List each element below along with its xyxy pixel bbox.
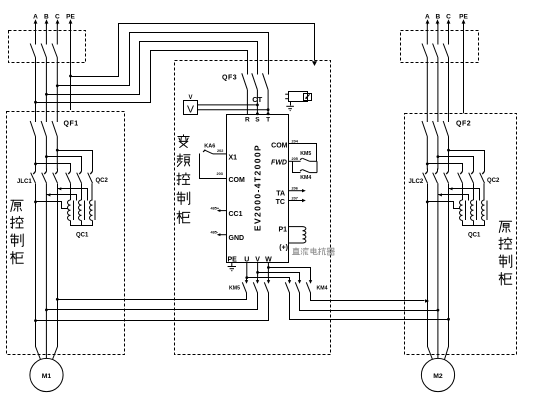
contactor KM5 pole 2 — [257, 278, 259, 281]
node A tap to QC2 (right) — [426, 163, 429, 166]
wire B isolator->QF2 — [437, 58, 439, 123]
wire C->QC2 pole3 (right) — [449, 151, 485, 169]
breaker QF2 blade B — [433, 121, 438, 137]
wire S QF3->inverter — [256, 90, 258, 115]
phase B supply arrow (right) — [437, 23, 439, 25]
isolator blade phase B (right) — [433, 44, 438, 58]
wire C lower tap -> coil area — [58, 189, 88, 201]
wire B QF1->JLC1 — [45, 137, 47, 170]
svg-text:X1: X1 — [229, 155, 238, 162]
cabinet name text 原控制柜 (right) — [499, 221, 511, 232]
wire C lower tap -> coil area (right) — [449, 189, 480, 201]
QC1 core bar 3 (left cab) — [94, 201, 96, 221]
wire FWD parallel branch — [293, 162, 301, 173]
VFD cabinet box (dashed) — [175, 61, 331, 355]
inverter U1 EV2000 box — [227, 115, 289, 263]
svg-text:QF1: QF1 — [64, 121, 79, 128]
wire phase C upper (left) — [56, 24, 58, 45]
wire B QF2->JLC2 — [437, 137, 439, 170]
node T entry — [267, 112, 270, 115]
node B lower tap arrow — [47, 193, 50, 196]
wire B lower tap -> coil area — [47, 195, 77, 201]
original control cabinet box (right, dashed) — [405, 114, 517, 355]
svg-text:T: T — [266, 117, 270, 124]
wire QC2 pole2 -> coil2 (right) — [473, 183, 475, 200]
wire C feeder bus — [58, 33, 269, 86]
wire C->QC2 pole3 — [58, 151, 93, 169]
svg-text:COM: COM — [271, 143, 288, 150]
svg-text:205: 205 — [292, 157, 298, 161]
wire C QF2->JLC2 — [448, 137, 450, 170]
breaker QF3 blade S — [252, 73, 258, 90]
QC1 coil 3 (right cab) — [482, 200, 485, 221]
wire GND stub — [219, 234, 227, 236]
wire U down — [246, 262, 248, 278]
svg-text:KA6: KA6 — [204, 144, 215, 150]
svg-text:KM5: KM5 — [229, 285, 240, 291]
wire phase A upper (left) — [35, 24, 37, 45]
wire B->QC2 pole2 (right) — [438, 157, 474, 169]
svg-text:KM5: KM5 — [300, 151, 311, 157]
node B tap to QC2 — [45, 155, 48, 158]
svg-text:PE: PE — [228, 256, 238, 263]
breaker QF3 blade T — [263, 73, 269, 90]
contactor QC2 pole 3 (left cab) — [92, 169, 94, 172]
svg-text:PE: PE — [66, 13, 75, 20]
isolator blade phase C (right) — [443, 44, 448, 58]
wire B->QC2 pole2 — [47, 157, 82, 169]
node C lower tap arrow (right) — [449, 187, 452, 190]
PE supply arrow (left) — [70, 23, 72, 25]
svg-text:PE: PE — [459, 13, 468, 20]
wire T QF3->inverter — [267, 90, 269, 115]
breaker QF1 blade C — [52, 121, 57, 137]
motor M1 circle — [30, 358, 63, 391]
DC reactor L1 coil — [303, 227, 306, 243]
wire B JLC1->M1 — [45, 183, 47, 358]
contactor QC2 pole 2 (right cab) — [473, 169, 475, 172]
isolator box QS2 (dashed, right) — [401, 31, 479, 63]
wire C isolator->QF1 — [56, 58, 58, 123]
wire W down — [267, 262, 269, 278]
surge arrester F1 body — [289, 92, 308, 102]
wire R QF3->inverter — [246, 90, 248, 115]
node KM5-M1 B junction — [45, 309, 48, 312]
wire P1->reactor — [289, 226, 303, 228]
svg-text:KM4: KM4 — [300, 175, 311, 181]
wire KM5 pole2 -> M1 — [47, 293, 258, 310]
motor M2 circle — [421, 358, 454, 391]
breaker QF2 blade C — [443, 121, 448, 137]
PE supply arrow (right) — [463, 23, 465, 25]
svg-text:485+: 485+ — [211, 207, 220, 211]
node A tap to QC2 — [34, 163, 37, 166]
isolator blade phase A (right) — [422, 44, 427, 58]
wire C JLC1->M1 — [53, 184, 58, 360]
wire B feeder bus — [47, 42, 258, 95]
contactor KM5 pole 1 — [246, 278, 248, 281]
wire voltmeter->T — [198, 109, 269, 111]
wire A lower tap -> coil1 side (right) — [428, 202, 460, 209]
wire KM4 pole2 -> M2 — [300, 293, 438, 311]
breaker QF2 blade A — [422, 121, 427, 137]
cabinet name text 原控制柜 (left) — [11, 200, 23, 211]
surge arrester earth lead — [290, 102, 292, 106]
wire QC2 pole3 -> coil3 (right) — [483, 183, 485, 200]
wire B isolator->QF1 — [45, 58, 47, 123]
wire A JLC1->M1 — [36, 184, 41, 360]
relay contact KA6 — [205, 150, 213, 154]
breaker QF1 blade A — [30, 121, 35, 137]
wire A JLC2->M2 — [428, 184, 433, 360]
wire V->KM4 pole2 — [258, 273, 300, 279]
phase B supply arrow (left) — [46, 23, 48, 25]
svg-text:COM: COM — [229, 177, 246, 184]
wire C QF1->JLC1 — [56, 137, 58, 170]
node voltmeter-S junction — [256, 104, 259, 107]
svg-text:QC1: QC1 — [76, 233, 89, 239]
wire A isolator->QF1 — [35, 58, 37, 123]
QC1 star join (right cab) — [463, 221, 485, 226]
node KM5-M1 C junction — [56, 298, 59, 301]
wire B JLC2->M2 — [437, 183, 439, 358]
wire A lower tap -> coil1 side — [36, 202, 68, 209]
svg-text:QF2: QF2 — [456, 121, 471, 128]
node A lower tap (right) — [426, 201, 429, 204]
wire B lower tap -> coil area (right) — [438, 195, 469, 201]
wire phase A upper (right) — [426, 24, 428, 45]
QC1 coil 2 (right cab) — [471, 200, 474, 221]
wire V down — [257, 262, 259, 278]
contactor KM4 pole 2 — [299, 278, 301, 281]
wire TA out — [289, 190, 303, 192]
wire KA6->COM — [200, 154, 227, 179]
surge arrester input ticks — [285, 93, 288, 95]
wire KM4 pole1 -> M2 — [290, 293, 449, 320]
svg-text:A: A — [33, 13, 38, 20]
wire FWD stub — [289, 160, 301, 162]
relay contact KM4 (interlock) — [300, 170, 302, 172]
wire phase B upper (left) — [45, 24, 47, 45]
isolator blade phase B (left) — [41, 44, 46, 58]
original control cabinet box (left, dashed) — [7, 112, 125, 355]
phase A supply arrow (left) — [35, 23, 37, 25]
svg-text:M2: M2 — [433, 373, 443, 380]
cabinet name text 变频控制柜 — [178, 135, 189, 148]
svg-text:JLC1: JLC1 — [17, 179, 32, 185]
svg-text:V: V — [188, 95, 192, 101]
QC1 coil 3 (left cab) — [90, 200, 93, 221]
isolator blade phase A (left) — [30, 44, 35, 58]
svg-text:QC2: QC2 — [96, 178, 109, 184]
svg-text:QF3: QF3 — [222, 75, 237, 82]
QC1 core bar 2 (left cab) — [84, 201, 86, 221]
wire KM5 pole3 -> M1 — [36, 293, 269, 321]
QC1 core bar 1 (right cab) — [465, 201, 467, 221]
PE feeder arrow into cabinet — [312, 61, 317, 66]
surge arrester F1 module — [304, 94, 312, 101]
svg-text:P1: P1 — [278, 227, 287, 234]
svg-text:KM4: KM4 — [317, 285, 328, 291]
wire CC1 stub — [219, 210, 227, 212]
wire voltmeter->S — [198, 104, 258, 106]
wire QC2 pole1 -> coil1 — [70, 183, 72, 200]
wire PE stub below junction — [70, 76, 72, 110]
contactor JLC2 pole 1 — [427, 169, 429, 172]
breaker QF1 blade B — [41, 121, 46, 137]
svg-text:203: 203 — [217, 172, 223, 176]
node B tap — [45, 93, 48, 96]
voltmeter PV box — [184, 101, 198, 115]
wire PE feeder bus — [71, 24, 315, 77]
node A lower tap — [34, 201, 37, 204]
wire PE vertical (left) — [70, 24, 72, 76]
wire W->KM4 pole3 — [269, 268, 311, 279]
svg-text:JLC2: JLC2 — [409, 179, 424, 185]
wire QC2 pole2 -> coil2 — [81, 183, 83, 200]
svg-text:A: A — [425, 13, 430, 20]
QC1 core bar 1 (left cab) — [73, 201, 75, 221]
node voltmeter-T junction — [267, 108, 270, 111]
wire A isolator->QF2 — [426, 58, 428, 123]
node C tap — [56, 84, 59, 87]
svg-text:C: C — [446, 13, 451, 20]
ground symbol (inverter PE) — [228, 266, 236, 268]
contactor JLC2 pole 3 — [448, 169, 450, 172]
svg-text:S: S — [255, 117, 260, 124]
wire TC out — [289, 200, 303, 202]
svg-text:EV2000-4T2000P: EV2000-4T2000P — [253, 144, 263, 231]
isolator blade phase C (left) — [52, 44, 57, 58]
phase C supply arrow (right) — [448, 23, 450, 25]
node S entry — [256, 112, 259, 115]
wire plus->reactor — [289, 242, 303, 244]
node B tap to QC2 (right) — [437, 155, 440, 158]
svg-text:TA: TA — [276, 190, 285, 197]
node PE tap — [69, 75, 72, 78]
node V tap — [256, 271, 259, 274]
QC1 coil 2 (left cab) — [79, 200, 82, 221]
contactor KM4 pole 1 — [289, 278, 291, 281]
svg-text:CC1: CC1 — [229, 211, 243, 218]
wire QC2 pole3 -> coil3 — [91, 183, 93, 200]
contactor JLC1 pole 2 — [46, 169, 48, 172]
node B lower tap arrow (right) — [439, 193, 442, 196]
inverter PE earth lead — [231, 262, 233, 266]
svg-text:QC2: QC2 — [487, 178, 500, 184]
wire KM4 rung right riser — [316, 161, 318, 172]
wire phase B upper (right) — [437, 24, 439, 45]
contactor QC2 pole 2 (left cab) — [81, 169, 83, 172]
contactor KM5 pole 3 — [268, 278, 270, 281]
contactor JLC2 pole 2 — [437, 169, 439, 172]
wire A->QC2 pole1 (right) — [428, 164, 463, 169]
contactor QC2 pole 1 (left cab) — [70, 169, 72, 172]
wire A feeder bus — [36, 51, 248, 103]
svg-text:C: C — [55, 13, 60, 20]
wire A QF2->JLC2 — [426, 137, 428, 170]
wire QC2 pole1 -> coil1 (right) — [462, 183, 464, 200]
node KM5-M1 A junction — [34, 319, 37, 322]
svg-text:V: V — [187, 104, 194, 116]
wire X1 stub — [213, 153, 227, 155]
svg-text:M1: M1 — [42, 373, 52, 380]
svg-text:202: 202 — [217, 149, 223, 153]
wire A->QC2 pole1 — [36, 164, 71, 169]
svg-text:B: B — [44, 13, 49, 20]
DC reactor name text 直流电抗器 (gray) — [292, 248, 299, 255]
svg-text:QC1: QC1 — [468, 233, 481, 239]
wire U->KM4 pole1 — [247, 278, 290, 279]
node C lower tap arrow — [58, 187, 61, 190]
wire KM4 pole3 -> M2 — [311, 293, 425, 301]
wire COM->KM rung — [289, 144, 317, 162]
QC1 star join (left cab) — [71, 221, 93, 226]
svg-text:485-: 485- — [211, 231, 219, 235]
wire phase C upper (right) — [448, 24, 450, 45]
contactor KM4 pole 3 — [310, 278, 312, 281]
node C tap to QC2 — [56, 149, 59, 152]
wire PE vertical (right) — [463, 24, 465, 113]
wire C JLC2->M2 — [445, 184, 449, 360]
QC1 coil 1 (right cab) — [460, 200, 463, 221]
svg-text:R: R — [245, 117, 250, 124]
svg-text:GND: GND — [229, 235, 245, 242]
wire A QF1->JLC1 — [35, 137, 37, 170]
isolator box QS1 (dashed, left) — [9, 31, 86, 63]
wire C isolator->QF2 — [448, 58, 450, 123]
node KM4-M2 C junction — [447, 318, 450, 321]
QC1 coil 1 (left cab) — [68, 200, 71, 221]
node A tap — [34, 101, 37, 104]
phase A supply arrow (right) — [427, 23, 429, 25]
svg-text:206: 206 — [292, 187, 298, 191]
node W tap — [267, 266, 270, 269]
wire KM5 pole1 -> M1 — [58, 293, 247, 300]
svg-text:FWD: FWD — [271, 159, 287, 166]
node KM4-M2 B junction — [437, 309, 440, 312]
phase C supply arrow (left) — [57, 23, 59, 25]
node C tap to QC2 (right) — [447, 149, 450, 152]
contactor QC2 pole 3 (right cab) — [484, 169, 486, 172]
QC1 core bar 2 (right cab) — [476, 201, 478, 221]
QC1 core bar 3 (right cab) — [486, 201, 488, 221]
node U tap — [245, 276, 248, 279]
svg-text:(+): (+) — [279, 245, 288, 252]
contactor JLC1 pole 3 — [57, 169, 59, 172]
contactor QC2 pole 1 (right cab) — [462, 169, 464, 172]
breaker QF3 blade R — [242, 73, 248, 90]
ground symbol (arrester) — [286, 105, 294, 107]
relay contact KM5 (interlock) — [300, 158, 302, 160]
svg-text:B: B — [436, 13, 441, 20]
svg-text:TC: TC — [276, 199, 285, 206]
svg-text:207: 207 — [292, 197, 298, 201]
svg-text:CT: CT — [252, 95, 262, 104]
contactor JLC1 pole 1 — [35, 169, 37, 172]
